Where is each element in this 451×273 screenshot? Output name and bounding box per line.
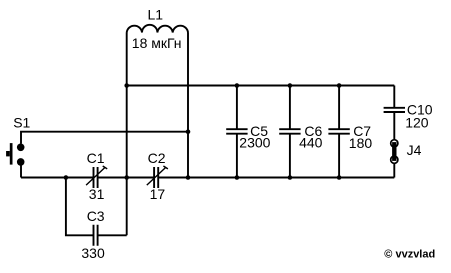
node top bus / C6 [288,83,293,88]
svg-text:C3: C3 [87,208,105,224]
svg-text:J4: J4 [407,142,422,158]
node top bus / C7 [337,83,342,88]
capacitor C6 [279,86,300,178]
wire C3 branch left [66,178,94,236]
wire bottom bus segment 3 [158,177,394,179]
node top bus / C5 [235,83,240,88]
switch S1 top contact [17,144,25,152]
svg-text:31: 31 [89,186,105,202]
wire C3 branch right [98,234,127,236]
svg-text:S1: S1 [13,115,30,131]
connector J4 bar [392,142,396,161]
svg-text:330: 330 [81,245,105,261]
wire bottom bus segment 2 [98,177,155,179]
capacitor C3 plates [94,225,98,246]
capacitor C1 plates [94,167,98,188]
capacitor C5 [226,86,247,178]
wire bottom bus segment 1 [21,177,94,179]
wire L1 right lead [187,33,189,178]
svg-text:180: 180 [349,135,373,151]
node bottom bus / C5 [235,175,240,180]
capacitor C1 trimmer arrow [86,166,107,185]
svg-text:17: 17 [150,186,166,202]
node bottom bus / C7 [337,175,342,180]
wire L1 left lead down to C3 loop [126,33,128,236]
node bottom bus / C3 branch [64,175,69,180]
capacitor C2 trimmer arrow [147,166,168,185]
switch S1 actuator bar [10,143,13,165]
connector J4 top ring [391,140,398,147]
wire S1 top to L1 right lead [21,132,188,144]
connector J4 bottom ring [391,156,398,163]
node bottom bus / L1 left [124,175,129,180]
node top bus / L1 left [124,83,129,88]
wire top bus [127,85,395,87]
svg-text:440: 440 [299,134,323,150]
wire S1 bottom lead [20,165,22,177]
svg-text:© vvzvlad: © vvzvlad [384,248,435,260]
svg-text:L1: L1 [148,7,164,23]
capacitor C7 [328,86,349,178]
svg-text:C2: C2 [148,150,166,166]
wire J4 to bottom bus [393,164,395,178]
svg-text:120: 120 [405,115,429,131]
inductor L1 [127,25,188,33]
svg-text:2300: 2300 [239,134,270,150]
node bottom bus / L1 right [186,175,191,180]
node S1 wire / L1 right [186,129,191,134]
svg-text:C1: C1 [87,150,105,166]
svg-text:18 мкГн: 18 мкГн [132,35,182,51]
capacitor C2 plates [154,167,158,188]
capacitor C10 [384,86,405,140]
switch S1 actuator button [6,151,10,156]
node bottom bus / C6 [288,175,293,180]
switch S1 bottom contact [17,158,25,166]
